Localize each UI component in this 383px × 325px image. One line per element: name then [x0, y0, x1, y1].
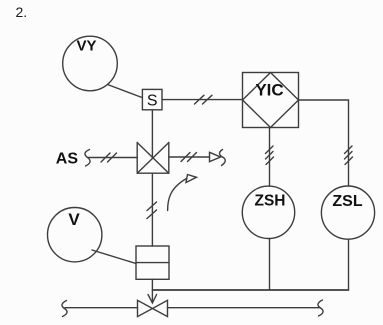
- instrument bubble VY: [63, 36, 118, 91]
- failure-position curved arrow: [168, 175, 197, 211]
- wire ZSL down and across: [153, 239, 349, 290]
- instrument bubble V: [47, 208, 101, 262]
- main pipe left: [65, 307, 138, 309]
- signal hash marks on ZSL wire: [345, 146, 353, 165]
- svg-text:YIC: YIC: [255, 81, 283, 100]
- svg-text:ZSL: ZSL: [332, 193, 362, 210]
- wire S to valve (vertical): [151, 110, 153, 158]
- wire ZSH down: [269, 239, 271, 291]
- main pipe right: [168, 307, 321, 309]
- actuator arrowhead: [148, 295, 157, 304]
- leader line V to actuator: [92, 250, 136, 264]
- hash marks on AS wire: [101, 153, 117, 162]
- wire S to YIC (horizontal): [162, 99, 243, 101]
- leader line VY to S: [108, 85, 143, 98]
- svg-text:ZSH: ZSH: [255, 193, 286, 210]
- svg-text:V: V: [68, 210, 80, 229]
- vent squiggle: [220, 150, 226, 166]
- signal hash marks on S-YIC wire: [195, 95, 213, 104]
- vent wire right of valve: [169, 156, 210, 158]
- signal hash marks on ZSH wire: [266, 146, 274, 165]
- hash marks on actuator wire: [147, 202, 157, 219]
- solenoid box S: [142, 89, 162, 109]
- pipe break squiggle right: [318, 300, 323, 316]
- svg-text:2.: 2.: [16, 4, 28, 20]
- AS supply wire: [88, 157, 138, 159]
- hash marks on vent wire: [181, 153, 197, 162]
- wire valve to actuator (vertical): [151, 173, 153, 246]
- actuator (double box): [136, 246, 169, 279]
- switch bubble ZSH: [242, 186, 294, 238]
- pipe break squiggle at AS: [85, 150, 90, 167]
- vent arrowhead: [210, 152, 221, 161]
- control valve (bowtie): [138, 300, 168, 316]
- svg-text:S: S: [147, 93, 158, 110]
- switch bubble ZSL: [321, 186, 374, 239]
- wire YIC to ZSL corner: [299, 100, 349, 186]
- branch wire to switches: [152, 289, 348, 291]
- pipe break squiggle left: [62, 301, 67, 317]
- controller YIC (square with diamond): [243, 73, 299, 128]
- svg-text:AS: AS: [56, 150, 79, 167]
- svg-text:VY: VY: [76, 38, 96, 55]
- wire actuator to valve with arrow: [151, 279, 153, 302]
- wire YIC to ZSH (vertical): [269, 128, 271, 187]
- 3-way valve body (AS valve): [137, 143, 169, 174]
